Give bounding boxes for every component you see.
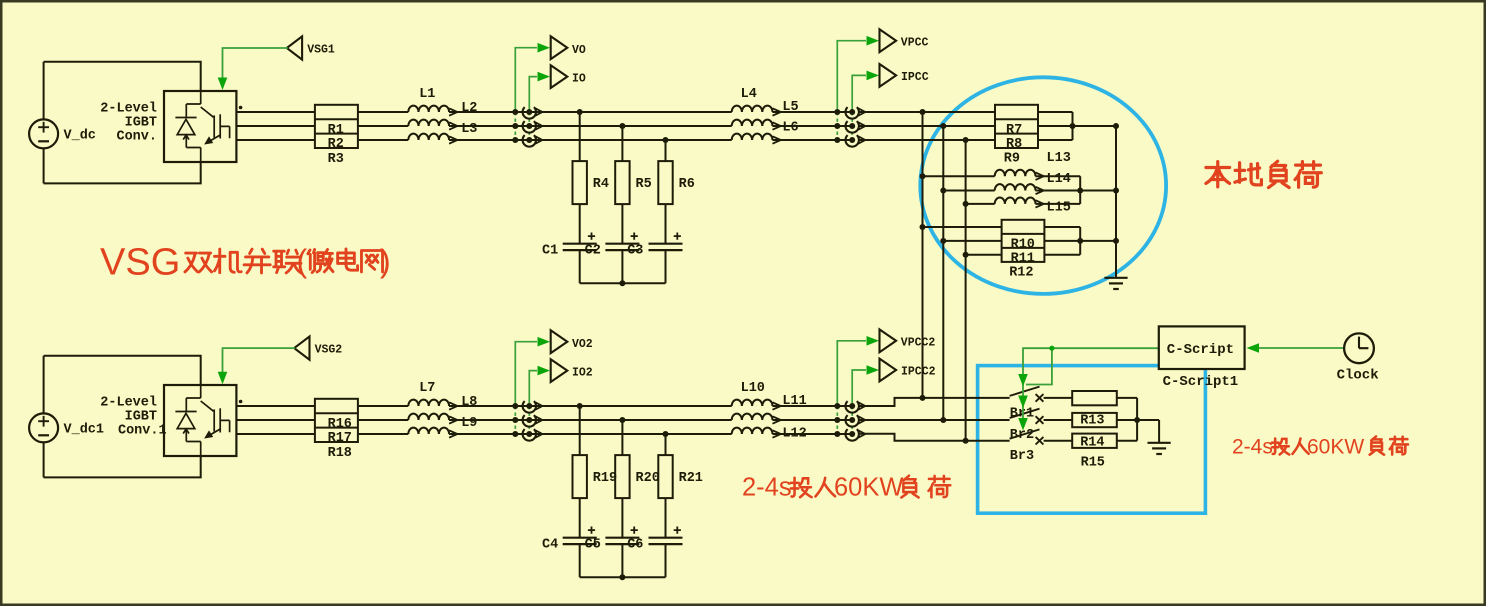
wire L coils to mid section — [449, 405, 732, 407]
red label VSG parallel microgrid — [100, 242, 391, 284]
blue highlight ellipse around local load — [920, 77, 1166, 294]
svg-text:VO: VO — [572, 44, 586, 57]
resistor R6 — [658, 161, 672, 204]
probe IO2 — [551, 359, 568, 382]
svg-text:R13: R13 — [1080, 413, 1104, 428]
probe IPCC — [880, 64, 897, 87]
svg-text:2-Level: 2-Level — [100, 102, 157, 117]
svg-text:R8: R8 — [1006, 137, 1022, 152]
svg-text:C5: C5 — [585, 538, 601, 553]
svg-text:R4: R4 — [593, 177, 609, 192]
wire down to resistor R21 — [665, 434, 667, 455]
svg-text:C-Script: C-Script — [1167, 342, 1234, 358]
wire phase a jog to breaker — [858, 398, 1010, 406]
resistor R7 R8 R9 block — [995, 105, 1038, 148]
blue highlight rectangle around switched load — [978, 366, 1206, 514]
converter block U1 — [164, 91, 236, 162]
wire green current tap IO — [528, 112, 530, 140]
svg-text:R7: R7 — [1006, 123, 1022, 138]
resistor R10 R11 R12 block — [923, 226, 1002, 228]
svg-text:R1: R1 — [328, 123, 344, 138]
resistor R20 — [615, 455, 629, 498]
wire green voltage tap VPCC — [836, 112, 838, 140]
svg-text:L4: L4 — [741, 87, 757, 102]
wire bus phase c vertical — [965, 140, 967, 441]
inductor L10 set — [732, 400, 781, 410]
voltage source V_dc — [29, 119, 58, 148]
wire resistor to cap — [579, 204, 581, 244]
node branch R4 — [577, 109, 583, 115]
inductor L4 set — [732, 106, 781, 116]
converter block U2 — [164, 385, 236, 456]
svg-text:R3: R3 — [328, 152, 344, 167]
svg-text:C-Script1: C-Script1 — [1163, 374, 1239, 390]
wire green voltage tap VO2 — [514, 406, 516, 434]
svg-text:L10: L10 — [741, 381, 765, 396]
wire green clock to c-script — [1258, 347, 1344, 349]
probe VPCC — [880, 29, 897, 52]
svg-text:VO2: VO2 — [572, 338, 593, 351]
wire R10 box right side join — [1044, 226, 1080, 228]
wire green current tap IO2 — [528, 406, 530, 434]
probe VO — [551, 36, 568, 59]
clock block — [1344, 333, 1374, 363]
resistor R19 — [573, 455, 587, 498]
wire pcc to local load R7 box — [858, 111, 995, 113]
node phase marker dot — [239, 106, 243, 110]
svg-text:60KW: 60KW — [834, 474, 903, 502]
svg-text:VSG: VSG — [100, 242, 180, 284]
breaker Br3 — [1036, 437, 1044, 445]
wire dc loop x — [44, 62, 201, 91]
capacitor C2 — [605, 233, 639, 251]
wire cap to bus — [621, 544, 623, 577]
svg-text:VPCC: VPCC — [901, 36, 929, 49]
wire resistor to cap — [621, 498, 623, 538]
ground local load — [1104, 278, 1127, 289]
wire bus phase a vertical — [922, 112, 924, 398]
junction dots voltage tap — [512, 109, 518, 115]
wire green vsg control — [223, 348, 296, 375]
wire down to resistor R20 — [621, 420, 623, 455]
svg-text:R21: R21 — [679, 471, 703, 486]
svg-text:Conv.: Conv. — [116, 130, 157, 145]
ground switched load — [1148, 443, 1171, 454]
wire cap to bus — [665, 250, 667, 283]
svg-text:L6: L6 — [782, 121, 798, 136]
wire cap to bus — [665, 544, 667, 577]
svg-text:): ) — [380, 243, 391, 279]
svg-text:R20: R20 — [636, 471, 660, 486]
capacitor C6 — [649, 527, 683, 545]
resistor R15 — [1072, 434, 1117, 448]
wire phase c jog to breaker — [858, 434, 1010, 441]
wire resistor to cap — [665, 204, 667, 244]
svg-text:VSG1: VSG1 — [307, 44, 335, 57]
current probes pcc — [846, 401, 866, 413]
inductor L1 set — [408, 106, 457, 116]
svg-text:L1: L1 — [419, 87, 435, 102]
junction dots pcc tap — [834, 403, 840, 409]
svg-text:R18: R18 — [328, 446, 352, 461]
wire down to resistor R19 — [579, 406, 581, 455]
capacitor C1 — [563, 233, 597, 251]
svg-text:V_dc: V_dc — [64, 128, 96, 143]
svg-text:L2: L2 — [461, 101, 477, 116]
svg-text:C6: C6 — [627, 538, 643, 553]
wire cap to bus — [621, 250, 623, 283]
node phase marker dot — [239, 400, 243, 404]
resistor R1 block — [315, 105, 358, 148]
wire R-box to L coils — [358, 111, 408, 113]
svg-text:L8: L8 — [461, 395, 477, 410]
wire green c-script to breakers — [1023, 348, 1159, 425]
svg-text:L13: L13 — [1047, 151, 1071, 166]
svg-text:IPCC2: IPCC2 — [901, 366, 936, 379]
resistor R21 — [658, 455, 672, 498]
breaker Br2 — [1036, 416, 1044, 424]
svg-text:R14: R14 — [1080, 435, 1104, 450]
current probes on phases — [523, 107, 543, 119]
node branch R5 — [619, 123, 625, 129]
svg-text:R5: R5 — [636, 177, 652, 192]
svg-text:R15: R15 — [1081, 455, 1105, 470]
red label 2-4s 60KW load mid — [742, 474, 950, 502]
svg-text:L15: L15 — [1047, 200, 1071, 215]
resistor R5 — [615, 161, 629, 204]
svg-text:IGBT: IGBT — [125, 116, 157, 131]
resistor R14 — [1072, 413, 1117, 427]
wire L set2 to PCC — [772, 405, 852, 407]
node branch R19 — [577, 403, 583, 409]
svg-text:60KW: 60KW — [1307, 436, 1364, 459]
capacitor C4 — [563, 527, 597, 545]
node branch R20 — [619, 417, 625, 423]
svg-text:C2: C2 — [585, 244, 601, 259]
svg-text:R2: R2 — [328, 137, 344, 152]
svg-text:(: ( — [297, 243, 308, 279]
svg-text:L14: L14 — [1047, 172, 1071, 187]
wire L coils to mid section — [449, 111, 732, 113]
wire resistor to cap — [579, 498, 581, 538]
wire bus phase b vertical — [942, 126, 944, 420]
wire local load to ground — [1115, 126, 1117, 278]
capacitor C5 — [605, 527, 639, 545]
svg-text:R10: R10 — [1011, 238, 1035, 253]
red label local load — [1206, 161, 1321, 187]
wire resistor to cap — [665, 498, 667, 538]
svg-text:R12: R12 — [1009, 265, 1033, 280]
probe VO2 — [551, 330, 568, 353]
svg-text:VPCC2: VPCC2 — [901, 336, 936, 349]
svg-text:R9: R9 — [1004, 152, 1020, 167]
svg-text:L7: L7 — [419, 381, 435, 396]
wire green current tap IPCC — [851, 112, 853, 140]
capacitor C3 — [649, 233, 683, 251]
wire green voltage tap VO — [514, 112, 516, 140]
svg-text:VSG2: VSG2 — [315, 344, 343, 357]
probe IPCC2 — [880, 359, 897, 382]
wire L set right side join — [1035, 175, 1080, 177]
probe IO — [551, 65, 568, 88]
c-script block C-Script1 — [1159, 326, 1245, 369]
svg-text:C4: C4 — [542, 538, 558, 553]
svg-text:L9: L9 — [461, 416, 477, 431]
svg-text:V_dc1: V_dc1 — [64, 422, 105, 437]
inductor L13 L14 L15 set — [923, 175, 995, 177]
inductor L7 set — [408, 400, 457, 410]
wire three-phase block to R-box — [236, 405, 315, 407]
node branch R6 — [663, 137, 669, 143]
junction dots voltage tap — [512, 403, 518, 409]
current probes pcc — [846, 107, 866, 119]
svg-text:IO: IO — [572, 73, 586, 86]
wire R-box to L coils — [358, 405, 408, 407]
wire R13-15 right join — [1117, 397, 1137, 399]
wire three-phase block to R-box — [236, 111, 315, 113]
resistor R16 block — [315, 399, 358, 442]
wire to ground2 — [1158, 420, 1160, 443]
svg-text:Conv.1: Conv.1 — [118, 424, 167, 439]
wire cap bottom bus — [580, 576, 666, 578]
voltage source V_dc1 — [29, 413, 58, 442]
wire L set2 to PCC — [772, 111, 852, 113]
svg-text:R19: R19 — [593, 471, 617, 486]
svg-text:IGBT: IGBT — [125, 410, 157, 425]
wire cap to bus — [579, 544, 581, 577]
red label 2-4s 60KW load right — [1232, 436, 1408, 459]
svg-text:2-4s: 2-4s — [742, 474, 792, 502]
svg-text:IO2: IO2 — [572, 367, 593, 380]
svg-text:C3: C3 — [627, 244, 643, 259]
resistor R13 — [1072, 391, 1117, 405]
wire cap bottom bus — [580, 282, 666, 284]
wire down to resistor R4 — [579, 112, 581, 161]
wire resistor to cap — [621, 204, 623, 244]
wire green current tap IPCC2 — [851, 406, 853, 434]
wire down to resistor R6 — [665, 140, 667, 161]
breaker Br1 — [1036, 394, 1044, 402]
current probes on phases — [523, 401, 543, 413]
goto tag VSG2 — [294, 337, 309, 360]
svg-text:R6: R6 — [679, 177, 695, 192]
wire down to resistor R5 — [621, 126, 623, 161]
svg-text:L3: L3 — [461, 122, 477, 137]
svg-text:Br3: Br3 — [1010, 449, 1034, 464]
svg-text:R17: R17 — [328, 431, 352, 446]
resistor R4 — [573, 161, 587, 204]
svg-text:R11: R11 — [1011, 251, 1035, 266]
svg-text:C1: C1 — [542, 244, 558, 259]
wire green voltage tap VPCC2 — [836, 406, 838, 434]
node branch R21 — [663, 431, 669, 437]
probe VPCC2 — [880, 329, 897, 352]
junction dots pcc tap — [834, 109, 840, 115]
wire green vsg control — [223, 48, 288, 81]
svg-text:2-4s: 2-4s — [1232, 436, 1273, 459]
svg-text:Clock: Clock — [1337, 367, 1379, 383]
wire phase b to breaker — [858, 419, 1010, 421]
svg-text:2-Level: 2-Level — [100, 396, 157, 411]
wire R7 box right side join — [1038, 111, 1073, 113]
wire dc loop x — [44, 356, 201, 385]
goto tag VSG1 — [287, 36, 302, 59]
svg-text:R16: R16 — [328, 417, 352, 432]
svg-text:IPCC: IPCC — [901, 71, 929, 84]
wire cap to bus — [579, 250, 581, 283]
